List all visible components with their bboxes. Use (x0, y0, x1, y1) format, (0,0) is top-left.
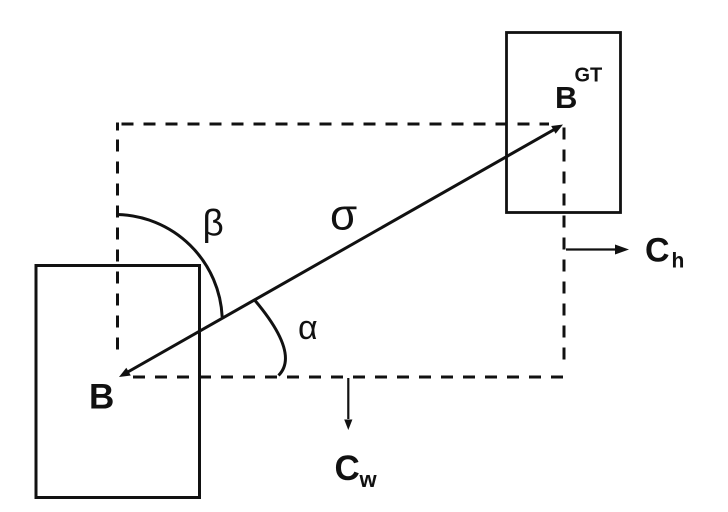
svg-text:w: w (359, 467, 378, 492)
svg-text:α: α (298, 309, 318, 347)
arrowhead at BGT center (551, 125, 563, 134)
svg-text:C: C (645, 232, 670, 270)
beta angle arc (118, 215, 223, 318)
Cw arrow (vertical, pointing down) (347, 378, 349, 419)
svg-text:GT: GT (575, 65, 603, 87)
dashed enclosing box: bottom edge (Cw) (133, 376, 565, 379)
dashed enclosing box: corner stub top-left (116, 123, 119, 131)
arrowhead at B center (119, 368, 131, 377)
arrowhead Cw (344, 420, 352, 431)
svg-text:β: β (203, 203, 224, 244)
Ch arrow (horizontal, pointing right) (566, 248, 618, 250)
svg-text:C: C (335, 449, 360, 488)
sigma line (center-to-center diagonal, double arrow) (126, 128, 557, 373)
svg-text:σ: σ (330, 191, 357, 240)
arrowhead Ch (615, 245, 629, 255)
dashed enclosing box: right edge (Ch) (563, 128, 566, 367)
svg-text:B: B (89, 378, 114, 417)
svg-text:h: h (672, 250, 685, 273)
dashed enclosing box: left edge (Ch) (116, 140, 119, 359)
dashed enclosing box: top edge (Cw) (122, 123, 550, 126)
alpha angle arc (255, 301, 285, 376)
box BGT (ground-truth box, top-right solid rectangle) (507, 33, 621, 213)
box B (predicted box, bottom-left solid rectangle) (36, 266, 200, 498)
